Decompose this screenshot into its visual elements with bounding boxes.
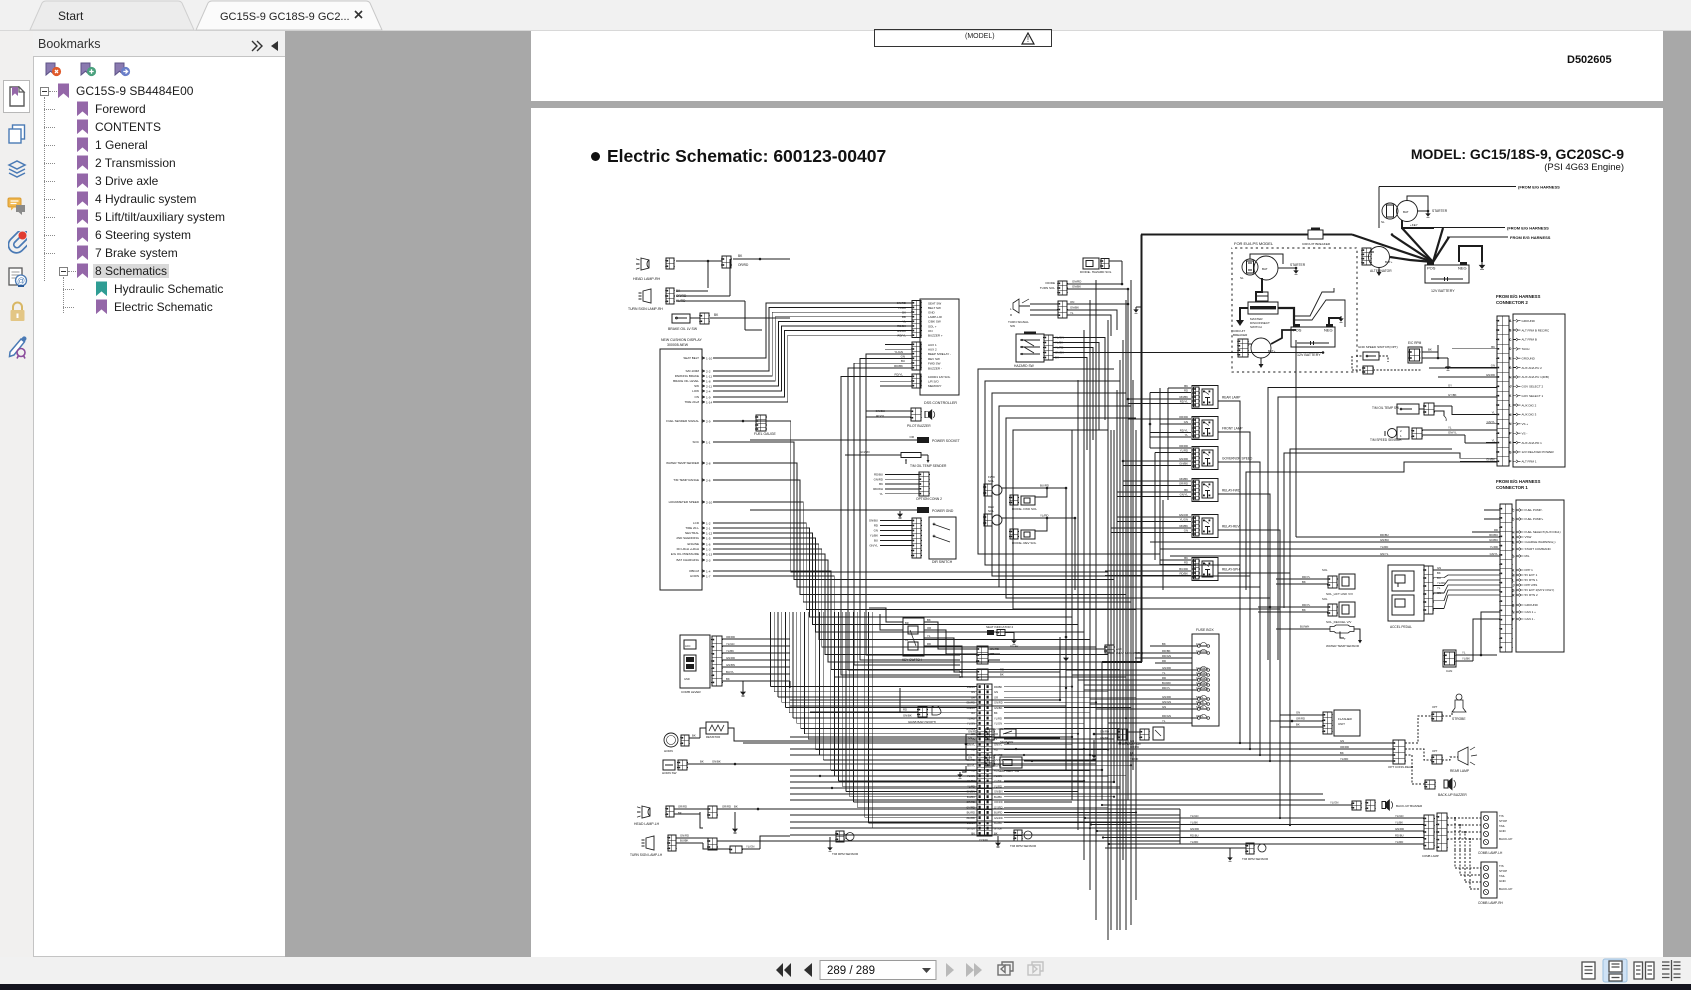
svg-text:RD: RD [903,708,907,712]
svg-text:OR/RD: OR/RD [1296,717,1305,721]
svg-text:RD: RD [994,748,998,752]
svg-text:FUEL PUMP-: FUEL PUMP- [1525,508,1543,512]
wire opt conn rear feeds [1000,742,1393,744]
svg-text:2ND SHEDDING: 2ND SHEDDING [676,536,699,540]
svg-text:2-1: 2-1 [706,526,711,530]
svg-text:T: T [1344,637,1346,641]
svg-text:VSW: VSW [1525,535,1532,539]
svg-text:!: ! [1027,35,1029,44]
svg-text:B: B [1512,603,1515,607]
connector COMB LAMP (front console) [680,635,710,688]
svg-text:BU/BK: BU/BK [680,839,689,843]
svg-text:BK: BK [714,313,719,317]
svg-text:GN/BN: GN/BN [726,663,735,667]
wire connector2 inputs [1452,348,1497,350]
svg-text:RD: RD [959,670,963,674]
wire battery NEG to ground [1459,246,1482,262]
svg-text:SOL +: SOL + [928,324,937,328]
svg-text:2-11: 2-11 [706,384,712,388]
svg-text:GN/BU: GN/BU [897,329,906,333]
svg-text:OBD-M: OBD-M [689,569,700,573]
svg-text:5V EXT 2(MY2 ONLY): 5V EXT 2(MY2 ONLY) [1525,588,1555,592]
svg-text:T/M RPM SENSOR: T/M RPM SENSOR [832,852,859,856]
solenoid SOL_LIFT LINK V/V [1328,576,1337,588]
lamp STROBE [1405,716,1432,743]
svg-text:ALT FRM 1: ALT FRM 1 [1522,460,1537,464]
svg-text:GROUND: GROUND [1522,319,1536,323]
svg-text:RD/WH: RD/WH [873,487,883,491]
svg-text:GN/BU: GN/BU [869,519,878,523]
svg-text:AUX DIG 2: AUX DIG 2 [1522,403,1537,407]
svg-text:YL/GN: YL/GN [1330,801,1338,805]
svg-text:R: R [1010,313,1013,317]
svg-text:YL/BK: YL/BK [994,779,1002,783]
connector turn lh inline [730,846,742,853]
connector head-lamp-rh B [722,256,731,268]
svg-text:WATER TEMP SENDER: WATER TEMP SENDER [666,461,700,465]
wire turn sign lamp lh [676,837,708,839]
svg-text:SEAT BELT SW: SEAT BELT SW [998,769,1019,773]
svg-text:POWER GND: POWER GND [932,509,954,513]
svg-text:L/R S/O: L/R S/O [928,380,939,384]
svg-text:BU/RD: BU/RD [967,811,975,815]
wire alternator to fan [1390,257,1433,262]
svg-text:OR/RD: OR/RD [1340,745,1349,749]
buzzer BACK-UP BUZZER (main) [1102,804,1352,806]
svg-text:BK: BK [678,811,682,815]
svg-text:VS +: VS + [1522,422,1529,426]
svg-text:FROM E/G HARNESS: FROM E/G HARNESS [1510,235,1551,240]
svg-text:AUX 2: AUX 2 [928,348,937,352]
connector brake-oil [700,313,709,324]
svg-text:YL/GN: YL/GN [726,642,734,646]
svg-text:T/M RPM SENSOR: T/M RPM SENSOR [1010,844,1037,848]
svg-text:RD/BK: RD/BK [894,364,903,368]
connector head-lamp-rh A [666,258,674,269]
wire rev sol [1002,517,1075,519]
svg-text:OR/RD: OR/RD [1179,415,1188,419]
svg-text:REV SW: REV SW [928,357,940,361]
svg-text:YL/BK: YL/BK [870,534,878,538]
svg-text:YL: YL [902,320,906,324]
wire battery fan (thick) [1402,228,1433,262]
pedal ACCEL PEDAL [1388,565,1424,621]
svg-text:GY: GY [1448,384,1452,388]
battery 12V BATTERY (EU) [1291,327,1335,347]
svg-text:BK: BK [959,675,963,679]
junction dots bottom [1059,699,1061,701]
sensor T/M RPM SENSOR (right) [1246,843,1254,854]
svg-text:STOP: STOP [1499,819,1507,823]
svg-text:RD/BU: RD/BU [1489,533,1498,537]
svg-text:K: K [1509,394,1512,398]
svg-text:GN: GN [968,756,972,760]
svg-text:YL/RD: YL/RD [994,716,1002,720]
svg-text:GN/GN: GN/GN [1162,700,1171,704]
svg-text:LAMP-L/R: LAMP-L/R [928,315,943,319]
svg-text:RD/GN: RD/GN [1162,714,1171,718]
ground sol ground [1065,655,1067,658]
wire comb lever outputs [722,638,790,640]
svg-text:YL: YL [927,634,931,638]
wire fwd sol [1002,487,1066,489]
svg-text:AUX DIG 3: AUX DIG 3 [1522,413,1537,417]
svg-text:RD/BU: RD/BU [1190,834,1199,838]
svg-text:GN/RD: GN/RD [994,758,1003,762]
svg-text:REAR LAMP: REAR LAMP [1450,769,1470,773]
svg-text:BU: BU [1437,576,1441,580]
wire relay feeds left [1168,387,1191,389]
svg-text:BAT CHARGING: BAT CHARGING [676,558,699,562]
battery 12V BATTERY (main) [1425,265,1469,283]
wire diode hazard sol [1109,260,1122,262]
wire starter EU thick feed [1256,278,1262,302]
svg-text:T/S: T/S [1499,814,1504,818]
svg-text:RELAY-SPH: RELAY-SPH [1222,568,1240,572]
svg-text:5V EXT 1: 5V EXT 1 [1525,573,1538,577]
svg-text:BRAKE OIL LEVEL: BRAKE OIL LEVEL [673,379,699,383]
ground comb lever gnd [744,681,746,688]
motor starter SL coil (main) [1382,203,1398,219]
svg-text:F: F [1509,460,1511,464]
breaker CIRCUIT BREAKER (top) [1308,230,1323,239]
svg-text:SEAT BELT: SEAT BELT [683,356,699,360]
svg-text:KEY SWITCH: KEY SWITCH [902,658,922,662]
connector E/G CONNECTOR 1 pins [1500,504,1512,652]
svg-text:HAZARD SW: HAZARD SW [1014,364,1035,368]
connector COMB LAMP (rear) [1424,815,1434,849]
solenoid DIODE- HAZARD SOL [1083,258,1099,269]
wire heavy bus x1142 [1141,235,1143,663]
wire relay interconnects [1149,393,1151,438]
switch HORN SW [663,760,675,770]
svg-text:YL/GN: YL/GN [1190,814,1198,818]
wire top harness line1 [1379,186,1516,188]
svg-text:S: S [1512,588,1515,592]
svg-text:YL/RD: YL/RD [1490,545,1498,549]
svg-text:RD/BU: RD/BU [1380,533,1389,537]
svg-text:LCD: LCD [693,521,700,525]
svg-text:2-10: 2-10 [706,500,712,504]
svg-text:YL: YL [1070,311,1074,315]
svg-text:TAIL: TAIL [1499,874,1505,878]
svg-text:GN: GN [1184,529,1188,533]
svg-text:GN/YL: GN/YL [1180,493,1189,497]
svg-text:BACK-UP BUZZER: BACK-UP BUZZER [1396,804,1423,808]
svg-text:MEMORY: MEMORY [928,384,941,388]
svg-text:AUX 1: AUX 1 [928,343,937,347]
wire fusebox left verticals [1065,670,1067,770]
svg-text:COMB LAMP: COMB LAMP [1422,854,1439,858]
svg-text:GN: GN [1296,711,1300,715]
svg-text:YL/BK: YL/BK [1190,821,1198,825]
wire can [1456,654,1497,656]
svg-text:D: D [1509,347,1512,351]
svg-text:SOL_DECCEL V/V: SOL_DECCEL V/V [1326,620,1351,624]
svg-text:SOL: SOL [1322,568,1328,572]
ground POWER GND [750,509,917,511]
svg-text:GND: GND [684,677,690,681]
svg-text:OPT: OPT [1432,705,1438,709]
svg-text:OPTION CONN 2: OPTION CONN 2 [916,497,942,501]
svg-text:SOL_LIFT LINK V/V: SOL_LIFT LINK V/V [1326,592,1353,596]
switch STOP LAMP SW [1100,733,1118,735]
svg-text:M: M [1509,413,1512,417]
svg-text:CHARGE WARNING(-): CHARGE WARNING(-) [1525,540,1556,544]
svg-text:1-11: 1-11 [706,374,712,378]
wire CONN right harness [1059,637,1061,700]
switch MASTER DISCONNECT SWITCH [1248,302,1278,314]
svg-text:YL/RD: YL/RD [1395,840,1403,844]
svg-text:SEAT INDICATOR 2: SEAT INDICATOR 2 [986,625,1013,629]
svg-text:DIR SWITCH: DIR SWITCH [932,560,953,564]
svg-text:BK: BK [1437,571,1441,575]
connector OPTION CONN 2 [919,472,929,496]
svg-text:YL: YL [1185,433,1189,437]
svg-text:N: N [1512,610,1515,614]
svg-text:BK: BK [738,254,743,258]
svg-text:GN/YL: GN/YL [1448,431,1457,435]
svg-text:BUZZER +: BUZZER + [928,334,943,338]
svg-text:Start: Start [58,9,84,23]
svg-text:GN: GN [901,355,905,359]
svg-text:GN/RD: GN/RD [1190,827,1199,831]
svg-text:GOV SELECT 1: GOV SELECT 1 [1522,394,1544,398]
ground head lamp ground [674,813,700,815]
wire harness line3 [1447,236,1508,238]
svg-text:L: L [1509,403,1511,407]
svg-text:SEAT SW: SEAT SW [928,301,941,305]
svg-text:K: K [1512,568,1515,572]
svg-text:RD: RD [874,524,878,528]
svg-text:BK: BK [1340,751,1344,755]
svg-text:STARTER: STARTER [1432,209,1448,213]
svg-text:MIL: MIL [1525,554,1530,558]
svg-text:289 / 289: 289 / 289 [827,965,875,977]
svg-text:TACH: TACH [1522,347,1530,351]
svg-text:YL: YL [879,492,883,496]
svg-text:GN/RD: GN/RD [726,656,735,660]
svg-text:CAN 1 -: CAN 1 - [1525,617,1536,621]
wire horn sw [687,763,977,765]
ground stop lamp ground [1093,740,1095,752]
wire turn signal sw [1030,303,1058,305]
svg-text:BAT+: BAT+ [1385,260,1393,264]
switch TURN SIGNAL SW [1013,299,1019,313]
svg-text:BAT: BAT [1262,267,1268,271]
svg-text:GN/RD: GN/RD [680,834,689,838]
svg-text:DIODE- REV SOL: DIODE- REV SOL [1012,541,1037,545]
svg-text:SW: SW [1010,324,1015,328]
svg-text:ON: ON [928,329,933,333]
svg-text:GN: GN [1340,739,1344,743]
svg-text:P: P [1512,617,1515,621]
relay GOVERNOR SPEED [1192,447,1218,470]
svg-text:NEUTRAL: NEUTRAL [685,531,699,535]
wire starter EU to ground [1278,267,1296,269]
relay RELAY-SPH [1192,558,1218,581]
wire harness line2 [1434,227,1505,229]
svg-text:RD/YL: RD/YL [1162,686,1171,690]
svg-text:G: G [1512,554,1515,558]
svg-text:S: S [1509,450,1512,454]
svg-text:POS: POS [1427,266,1436,271]
svg-text:P: P [1509,432,1512,436]
wire ec rpm [1422,351,1438,353]
svg-text:RD/YL: RD/YL [1180,400,1189,404]
wire diode assy [1067,283,1122,285]
svg-text:BACK-UP: BACK-UP [1499,837,1512,841]
svg-text:BREAKER: BREAKER [1233,333,1248,337]
svg-text:YL/RD: YL/RD [1190,840,1198,844]
svg-text:OR/RD: OR/RD [678,805,687,809]
svg-text:RELAY-FWD: RELAY-FWD [1222,489,1241,493]
ground bus ground x1136 [1136,306,1142,308]
svg-text:BU/YL: BU/YL [726,670,735,674]
svg-text:12V BATTERY: 12V BATTERY [1431,289,1455,293]
svg-text:OPT: OPT [1432,749,1438,753]
wire connector1 inputs [1484,509,1500,511]
svg-text:D: D [1512,517,1515,521]
svg-text:C: C [1512,508,1515,512]
svg-text:300005-NEW: 300005-NEW [667,343,689,347]
svg-text:(FROM E/G HARNESS: (FROM E/G HARNESS [1518,185,1560,190]
svg-text:STARTER: STARTER [1290,263,1306,267]
svg-text:RD/BK: RD/BK [1010,645,1019,649]
svg-text:GN/BK: GN/BK [994,706,1003,710]
svg-text:REAR LAMP: REAR LAMP [1222,396,1240,400]
svg-text:GN/BK: GN/BK [712,760,721,764]
svg-text:BAT+: BAT+ [1268,349,1276,353]
connector CAN [1443,650,1456,667]
svg-text:T/S: T/S [1499,864,1504,868]
svg-text:DIODE: DIODE [1045,281,1055,285]
svg-text:2-9: 2-9 [706,419,711,423]
svg-text:PARKING BRAKE: PARKING BRAKE [675,374,699,378]
svg-text:C/BK SW: C/BK SW [928,320,941,324]
svg-text:1: 1 [1400,434,1402,438]
connector DSS group1 [912,301,921,338]
svg-text:YL/RD: YL/RD [1340,757,1348,761]
svg-text:N: N [1509,422,1512,426]
svg-text:HORN: HORN [664,749,673,753]
connector CONN top aux 3pin [977,646,988,664]
svg-text:RD: RD [1494,528,1498,532]
svg-text:RD: RD [1184,389,1188,393]
svg-text:ACCEL PEDAL: ACCEL PEDAL [1390,625,1412,629]
svg-text:1-1: 1-1 [706,440,711,444]
svg-text:T/M RPM SENSOR: T/M RPM SENSOR [1242,857,1269,861]
sensor WATER TEMP SENSOR [1276,628,1330,630]
svg-text:BK: BK [879,482,883,486]
box E/G CONNECTOR 1 body [1516,500,1564,652]
svg-text:GN/BK: GN/BK [1179,462,1188,466]
switch SEAT BELT SW [966,734,985,760]
wire bus display-to-conn staircase [716,303,912,358]
svg-text:AUX ANA PU 2: AUX ANA PU 2 [1522,366,1543,370]
svg-text:NEW CUSHION DISPLAY: NEW CUSHION DISPLAY [661,338,702,342]
svg-text:YL/RD: YL/RD [1180,449,1188,453]
svg-text:NEG: NEG [1458,266,1467,271]
svg-text:YL/BU: YL/BU [898,306,906,310]
svg-text:GN: GN [874,529,878,533]
connector tm oil temp sw [1424,403,1434,415]
wire head lamp rh to bus [676,260,722,262]
connector CONN top 2pin [977,669,988,680]
svg-text:ON: ON [1070,300,1074,304]
wire flasher feeds [1280,714,1323,716]
svg-text:GN/BU: GN/BU [1489,538,1498,542]
svg-text:YL/RD: YL/RD [1380,545,1388,549]
svg-text:BELT SW: BELT SW [928,306,941,310]
svg-text:FPP 1: FPP 1 [1525,568,1534,572]
svg-text:1-13: 1-13 [706,552,712,556]
svg-text:GN/RD: GN/RD [1486,373,1495,377]
svg-text:RESISTOR: RESISTOR [706,735,720,739]
svg-text:GN: GN [1491,364,1495,368]
svg-text:YL/RD: YL/RD [1437,581,1445,585]
svg-text:J: J [1510,385,1512,389]
svg-text:GOVERNOR SPEED: GOVERNOR SPEED [1222,457,1253,461]
svg-text:GN/YL: GN/YL [1490,552,1499,556]
svg-text:F: F [1512,547,1514,551]
svg-text:100001 1/R SOL: 100001 1/R SOL [928,375,951,379]
controller DSS CONTROLLER box [920,299,959,395]
svg-text:BACK-UP BUZZER: BACK-UP BUZZER [1438,793,1467,797]
svg-text:RD/YL: RD/YL [897,333,906,337]
svg-text:HEAD LAMP-LH: HEAD LAMP-LH [634,822,660,826]
svg-text:TURN SOL: TURN SOL [1040,286,1056,290]
svg-text:E: E [1512,540,1515,544]
svg-text:R: R [1509,441,1512,445]
svg-text:1-5: 1-5 [706,536,711,540]
svg-text:12V RELAYED POWER: 12V RELAYED POWER [1522,450,1555,454]
switch KEY SWITCH [903,618,924,656]
svg-text:GND: GND [1499,879,1507,883]
svg-text:12V BATTERY: 12V BATTERY [1297,353,1321,357]
svg-text:RD/YL: RD/YL [1180,429,1189,433]
svg-text:1-9: 1-9 [706,395,711,399]
relay RELAY-REV [1192,515,1218,538]
svg-text:RD/BK: RD/BK [1179,524,1188,528]
lamp HEAD LAMP-RH [641,258,649,270]
svg-text:STOP: STOP [1499,869,1507,873]
sensor T/M RPM SENSOR (far left) [836,831,844,842]
box E/G CONNECTOR 2 body [1513,314,1565,467]
svg-text:OR: OR [994,732,998,736]
svg-text:BK: BK [1184,384,1188,388]
wire comb lamp rh dashes [1455,867,1481,869]
svg-text:BAT: BAT [1403,210,1409,214]
svg-text:TAIL: TAIL [1499,824,1505,828]
diode DIODE- FWD SOL [1010,495,1018,505]
svg-text:GN/RD: GN/RD [994,816,1003,820]
svg-text:GN/RD: GN/RD [860,450,871,454]
svg-text:YL/GN: YL/GN [894,350,903,354]
wire DSS outputs route down-left [866,354,960,655]
wire comb lamp feeds [1085,817,1424,819]
wire sol lift [1276,578,1328,580]
wire comb lamp lh dashes [1447,817,1481,819]
svg-text:FUEL SELECT(AUX DIG1): FUEL SELECT(AUX DIG1) [1525,530,1561,534]
svg-text:GN/RD: GN/RD [874,477,883,481]
svg-text:1-3: 1-3 [706,547,711,551]
svg-text:1-14: 1-14 [706,400,712,404]
relay REAR LAMP [1192,386,1218,409]
svg-text:BK: BK [1428,348,1432,352]
svg-text:FUEL PUMP+: FUEL PUMP+ [1525,517,1544,521]
connector hazard sw [1044,335,1053,360]
